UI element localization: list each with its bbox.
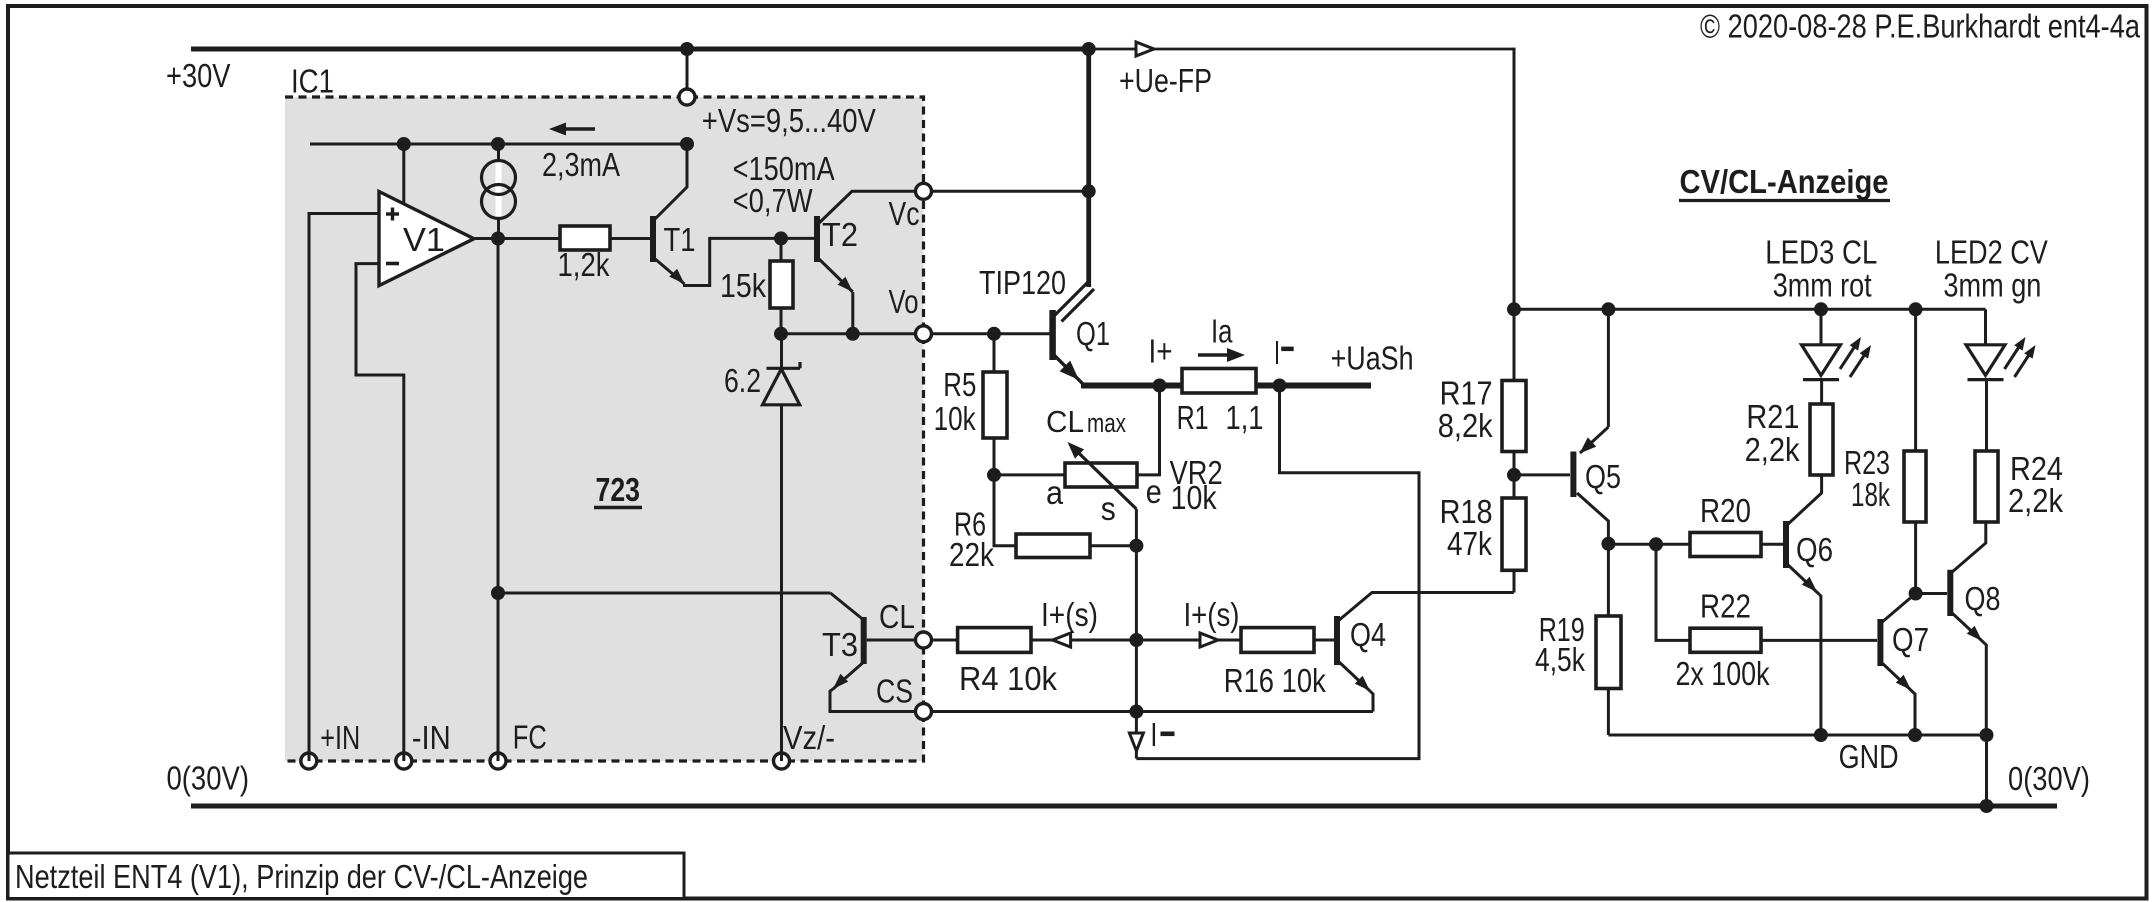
T1 emitter xyxy=(654,258,685,284)
svg-text:I+: I+ xyxy=(1149,334,1173,371)
junction op-amp out xyxy=(491,232,505,246)
label <0,7W xyxy=(733,183,813,220)
svg-text:CV/CL-Anzeige: CV/CL-Anzeige xyxy=(1680,164,1889,201)
resistor R17 xyxy=(1502,381,1526,452)
current source circle 1 xyxy=(482,161,516,195)
wire Vo line xyxy=(781,332,916,335)
T2 emitter xyxy=(818,258,853,292)
label R21 xyxy=(1746,399,1799,436)
junction GND/Q7e xyxy=(1908,728,1922,742)
Q6 collector xyxy=(1787,475,1822,525)
junction bus/LED3 xyxy=(1814,302,1828,316)
wire VR2 right up xyxy=(1137,386,1160,475)
transistor Q5 bar xyxy=(1570,452,1576,498)
label a xyxy=(1046,475,1063,512)
junction Q5c/R19/R20 xyxy=(1601,537,1615,551)
label R18 value 47k xyxy=(1447,526,1492,563)
wire GND to rail xyxy=(1985,735,1988,806)
label V1 xyxy=(403,222,445,259)
wire +IN input xyxy=(309,214,379,762)
wire T3 base to CL xyxy=(867,639,916,642)
label CL xyxy=(879,599,915,636)
wire +Ue-FP feed xyxy=(1089,48,1514,51)
label Q4 xyxy=(1350,617,1386,654)
wire R18 top xyxy=(1513,475,1516,498)
wire 15k top xyxy=(780,238,783,261)
svg-text:1,2k: 1,2k xyxy=(558,247,610,284)
wire Vo to Q1 base xyxy=(932,332,1050,335)
svg-text:723: 723 xyxy=(596,472,641,509)
svg-text:T2: T2 xyxy=(822,217,858,254)
svg-text:CL: CL xyxy=(879,599,915,636)
wire R18 bottom xyxy=(1513,570,1516,592)
label 723 xyxy=(594,472,642,509)
wire R22 to Q7 xyxy=(1761,639,1877,642)
arrow I- down xyxy=(1129,733,1143,751)
svg-text:s: s xyxy=(1101,491,1116,528)
zener 6.2 cathode bar xyxy=(767,362,801,368)
op-amp - sign xyxy=(386,262,399,266)
pin Vc xyxy=(916,183,932,199)
svg-text:I: I xyxy=(1274,335,1280,372)
junction FC/T3 xyxy=(491,586,505,600)
title block box xyxy=(8,853,684,899)
label LED3 CL xyxy=(1765,235,1877,272)
junction bus/Q5 xyxy=(1601,302,1615,316)
svg-text:10k: 10k xyxy=(934,401,976,438)
label T3 xyxy=(822,627,858,664)
junction R5/R6/VR2 xyxy=(987,468,1001,482)
svg-text:R1: R1 xyxy=(1177,400,1209,437)
arrow I+(s) left xyxy=(1053,633,1071,647)
svg-text:Vz/-: Vz/- xyxy=(783,720,835,757)
resistor R21 xyxy=(1810,404,1833,475)
pin Vz/- xyxy=(774,753,790,769)
0(30V) rail bottom xyxy=(191,804,2057,809)
junction R6/wiper xyxy=(1129,539,1143,553)
svg-text:R20: R20 xyxy=(1700,493,1751,530)
svg-text:3mm rot: 3mm rot xyxy=(1773,267,1873,304)
label R22 xyxy=(1700,589,1751,626)
T3 collector diag xyxy=(830,593,863,620)
output line UaSh xyxy=(1081,383,1371,389)
label IC1 xyxy=(291,64,334,101)
label R23 value 18k xyxy=(1851,477,1890,514)
label 0(30V) right xyxy=(2008,761,2090,798)
resistor R1 xyxy=(1182,369,1256,394)
label 1,2k xyxy=(558,247,610,284)
svg-text:-IN: -IN xyxy=(412,720,451,757)
svg-text:R16 10k: R16 10k xyxy=(1224,663,1326,700)
label R17 value 8,2k xyxy=(1438,408,1493,445)
svg-text:1,1: 1,1 xyxy=(1226,400,1264,437)
svg-text:IC1: IC1 xyxy=(291,64,334,101)
label R20 xyxy=(1700,493,1751,530)
resistor R19 xyxy=(1596,616,1621,689)
label VR2 value xyxy=(1171,480,1217,517)
svg-text:Q8: Q8 xyxy=(1965,581,2001,618)
junction R17/R18/Q5base xyxy=(1507,468,1521,482)
label R21 value 2,2k xyxy=(1745,432,1800,469)
svg-text:CL: CL xyxy=(1046,404,1084,439)
arrow +Ue-FP xyxy=(1136,42,1154,56)
Q8 collector xyxy=(1951,522,1986,573)
wire -IN input xyxy=(356,264,404,761)
label FC xyxy=(513,720,547,757)
pin -IN xyxy=(396,753,412,769)
label Q1 xyxy=(1076,316,1110,353)
IC1 gray region xyxy=(285,97,924,761)
svg-text:R21: R21 xyxy=(1746,399,1799,436)
svg-text:Q5: Q5 xyxy=(1585,459,1621,496)
junction T2e/Vo xyxy=(846,327,860,341)
wire V+ to op-amp xyxy=(402,144,405,205)
junction Vc line xyxy=(1082,184,1096,198)
junction CS/I- xyxy=(1129,705,1143,719)
label GND xyxy=(1839,739,1899,776)
+30V rail xyxy=(191,47,1089,52)
title text xyxy=(15,859,588,896)
svg-text:0(30V): 0(30V) xyxy=(2008,761,2090,798)
pin CS xyxy=(916,704,932,720)
label 6.2 xyxy=(724,363,761,400)
transistor Q8 bar xyxy=(1947,570,1953,616)
junction +30V/Vs xyxy=(680,42,694,56)
resistor R22 xyxy=(1690,628,1761,652)
wire Q8 emitter down xyxy=(1985,644,1987,736)
svg-text:FC: FC xyxy=(513,720,547,757)
resistor R18 xyxy=(1502,498,1526,570)
junction bus/R17 xyxy=(1507,302,1521,316)
wire internal V+ line xyxy=(310,143,687,146)
svg-text:3mm gn: 3mm gn xyxy=(1943,267,2041,304)
svg-text:© 2020-08-28 P.E.Burkhardt ent: © 2020-08-28 P.E.Burkhardt ent4-4a xyxy=(1700,9,2140,46)
junction R5 top xyxy=(987,327,1001,341)
wire I- return xyxy=(1136,386,1419,759)
label +Ue-FP xyxy=(1119,63,1212,100)
junction V+ c xyxy=(680,137,694,151)
wire R20 line xyxy=(1608,543,1690,546)
label R5 value xyxy=(934,401,976,438)
wire R22 drop xyxy=(1656,544,1690,640)
svg-text:e: e xyxy=(1146,474,1162,511)
transistor Q1 bar xyxy=(1049,310,1056,360)
IC1 dashed border xyxy=(285,97,924,761)
Q1 collector double xyxy=(1054,280,1094,322)
wire R17 top xyxy=(1513,309,1516,380)
label R1 xyxy=(1177,400,1209,437)
label I- bottom xyxy=(1150,717,1174,754)
LED3 light arrows xyxy=(1840,337,1871,377)
resistor R23 xyxy=(1904,451,1926,522)
label LED2 CV xyxy=(1935,235,2049,272)
label LED3 3mm rot xyxy=(1773,267,1873,304)
svg-text:2x 100k: 2x 100k xyxy=(1676,656,1770,693)
label LED2 3mm gn xyxy=(1943,267,2041,304)
junction GND/rail xyxy=(1980,799,1994,813)
label R6 value 22k xyxy=(949,537,994,574)
Q8 emitter xyxy=(1951,612,1985,644)
svg-text:+IN: +IN xyxy=(320,720,360,757)
wire R5 top xyxy=(993,334,996,372)
wire 15k bottom xyxy=(780,308,783,334)
wire I- drop xyxy=(1135,712,1138,759)
bus top xyxy=(1514,308,1986,311)
wire cs top xyxy=(497,144,500,161)
op-amp V1 xyxy=(379,192,474,286)
arrow Ia xyxy=(1198,348,1245,362)
label Q7 xyxy=(1892,622,1929,659)
label R1 value 1,1 xyxy=(1226,400,1264,437)
svg-text:22k: 22k xyxy=(949,537,994,574)
junction 15k/zener xyxy=(774,327,788,341)
label R18 xyxy=(1440,494,1493,531)
wire cs bottom xyxy=(497,218,500,239)
wire R23 bottom xyxy=(1914,522,1917,594)
T2 collector xyxy=(818,191,916,224)
label Vz/- xyxy=(783,720,835,757)
wire R4 to junction xyxy=(1031,639,1136,642)
wire CS line xyxy=(932,710,1374,713)
resistor R6 xyxy=(1016,534,1090,558)
junction GND/Q8e xyxy=(1980,728,1994,742)
label CV/CL-Anzeige xyxy=(1679,164,1890,201)
svg-text:Netzteil ENT4 (V1), Prinzip de: Netzteil ENT4 (V1), Prinzip der CV-/CL-A… xyxy=(15,859,588,896)
svg-text:max: max xyxy=(1087,408,1126,438)
svg-text:LED2 CV: LED2 CV xyxy=(1935,235,2049,272)
Q4 collector xyxy=(1338,593,1514,622)
wire Q8 base xyxy=(1916,592,1947,595)
junction I- xyxy=(1273,379,1287,393)
wire R23 top xyxy=(1914,309,1917,451)
label R23 xyxy=(1844,445,1890,482)
copyright text xyxy=(1700,9,2140,46)
transistor T2 bar xyxy=(814,216,820,262)
svg-text:GND: GND xyxy=(1839,739,1899,776)
label R16 10k xyxy=(1224,663,1326,700)
wire T1 emitter to node xyxy=(685,238,779,285)
Q7 emitter xyxy=(1881,662,1913,693)
svg-text:I+(s): I+(s) xyxy=(1184,597,1240,634)
junction Q7c/R23/Q8b xyxy=(1909,587,1923,601)
potentiometer VR2 xyxy=(1065,463,1137,487)
svg-text:Vo: Vo xyxy=(889,284,919,321)
junction I+ xyxy=(1153,379,1167,393)
wire T2 base xyxy=(781,237,814,240)
resistor R5 xyxy=(983,372,1007,438)
label s xyxy=(1101,491,1116,528)
svg-text:Q6: Q6 xyxy=(1796,532,1833,569)
svg-text:8,2k: 8,2k xyxy=(1438,408,1493,445)
svg-text:18k: 18k xyxy=(1851,477,1890,514)
wire T3 emitter to CS xyxy=(830,689,916,712)
svg-text:Ia: Ia xyxy=(1211,314,1233,351)
label +IN xyxy=(320,720,360,757)
label 2,3mA xyxy=(542,147,621,184)
label 2x 100k xyxy=(1676,656,1770,693)
op-amp + sign xyxy=(386,208,399,221)
svg-text:LED3 CL: LED3 CL xyxy=(1765,235,1877,272)
wire LED3 anode xyxy=(1820,309,1823,345)
label 0(30V) left xyxy=(167,761,250,798)
junction bus/R23 xyxy=(1909,302,1923,316)
wire Vc to Q1 feed xyxy=(932,190,1089,193)
wire Q1 collector feed xyxy=(1086,49,1091,287)
svg-text:T3: T3 xyxy=(822,627,858,664)
label I+ xyxy=(1149,334,1173,371)
svg-text:4,5k: 4,5k xyxy=(1535,642,1585,679)
svg-text:Q1: Q1 xyxy=(1076,316,1110,353)
label TIP120 xyxy=(979,265,1066,302)
junction T1/T2/15k xyxy=(774,231,788,245)
transistor T1 bar xyxy=(650,216,656,262)
zener 6.2 wire top xyxy=(780,334,783,369)
resistor R4 xyxy=(958,628,1031,653)
junction sense/R4 xyxy=(1129,633,1143,647)
label R19 value 4,5k xyxy=(1535,642,1585,679)
wire LED2 anode xyxy=(1984,309,1987,345)
GND bus xyxy=(1608,734,1986,737)
svg-text:R5: R5 xyxy=(943,367,976,404)
svg-text:+Vs=9,5...40V: +Vs=9,5...40V xyxy=(702,103,877,140)
junction R20/R22 xyxy=(1649,537,1663,551)
svg-text:2,3mA: 2,3mA xyxy=(542,147,621,184)
svg-text:6.2: 6.2 xyxy=(724,363,761,400)
wire opamp out to R xyxy=(474,237,560,240)
svg-text:+Ue-FP: +Ue-FP xyxy=(1119,63,1212,100)
wire Q7 emitter down xyxy=(1913,693,1915,736)
wire R6 left xyxy=(994,475,1016,546)
label R17 xyxy=(1440,375,1493,412)
transistor Q4 bar xyxy=(1334,616,1340,665)
Q5 emitter xyxy=(1580,309,1609,453)
wire R21 top xyxy=(1820,380,1823,404)
T1 collector xyxy=(654,144,687,220)
wire right feed down xyxy=(1513,48,1516,310)
svg-text:CS: CS xyxy=(876,674,913,711)
label R4 10k xyxy=(959,661,1057,698)
pin CL xyxy=(916,632,932,648)
resistor 15k xyxy=(770,261,793,308)
Q7 collector xyxy=(1881,594,1916,624)
label <150mA xyxy=(733,151,836,188)
wire wiper down xyxy=(1135,509,1138,546)
label I- xyxy=(1274,335,1294,372)
wire R24 top xyxy=(1985,380,1988,451)
wire R19 top xyxy=(1607,544,1610,616)
svg-text:T1: T1 xyxy=(664,222,696,259)
svg-text:R4 10k: R4 10k xyxy=(959,661,1057,698)
wire sense vertical xyxy=(1135,546,1138,712)
svg-text:+30V: +30V xyxy=(166,58,231,95)
Q6 emitter xyxy=(1787,564,1819,595)
svg-text:I: I xyxy=(1150,717,1157,754)
label 15k xyxy=(720,268,766,305)
label Vc xyxy=(889,196,920,233)
junction rail/Q1 xyxy=(1082,42,1096,56)
wire R17 bottom xyxy=(1513,452,1516,475)
svg-text:2,2k: 2,2k xyxy=(2008,483,2063,520)
label R19 xyxy=(1539,612,1585,649)
label Q5 xyxy=(1585,459,1621,496)
label T2 xyxy=(822,217,858,254)
label VR2 xyxy=(1170,455,1223,492)
label CS xyxy=(876,674,913,711)
label e xyxy=(1146,474,1162,511)
transistor Q6 bar xyxy=(1783,521,1789,568)
resistor R24 xyxy=(1975,451,1998,522)
label -IN xyxy=(412,720,451,757)
arrow 2,3mA xyxy=(549,123,595,136)
svg-text:<0,7W: <0,7W xyxy=(733,183,813,220)
VR2 wiper arrow xyxy=(1068,442,1137,509)
svg-text:10k: 10k xyxy=(1171,480,1217,517)
wire R16 to Q4 xyxy=(1314,639,1334,642)
svg-text:+UaSh: +UaSh xyxy=(1331,341,1414,378)
LED2 light arrows xyxy=(2005,337,2036,377)
wire T2 emitter down xyxy=(851,292,854,334)
transistor T3 bar xyxy=(861,617,867,664)
transistor Q7 bar xyxy=(1877,619,1883,666)
current source circle 2 xyxy=(482,185,516,219)
junction V+ b xyxy=(491,137,505,151)
label R24 value 2,2k xyxy=(2008,483,2063,520)
pin +Vs xyxy=(679,89,695,105)
T3 emitter xyxy=(833,662,864,689)
label R5 xyxy=(943,367,976,404)
junction GND/Q6e xyxy=(1814,728,1828,742)
wire FC to T3 xyxy=(498,592,830,595)
wire VR2 left xyxy=(994,473,1065,476)
svg-text:R22: R22 xyxy=(1700,589,1751,626)
resistor R20 xyxy=(1690,533,1761,557)
svg-text:R17: R17 xyxy=(1440,375,1493,412)
label +30V xyxy=(166,58,231,95)
wire R5 bottom xyxy=(993,438,996,475)
diode LED3 xyxy=(1802,345,1841,380)
svg-text:47k: 47k xyxy=(1447,526,1492,563)
Q1 emitter xyxy=(1054,355,1083,384)
svg-text:2,2k: 2,2k xyxy=(1745,432,1800,469)
resistor R16 xyxy=(1241,628,1314,653)
Q5 collector xyxy=(1577,493,1608,544)
wire zener to Vz pin xyxy=(780,405,783,761)
wire R20 to Q6 xyxy=(1761,543,1783,546)
label I+(s) left xyxy=(1041,597,1098,634)
current source white stripe xyxy=(496,162,502,217)
label CLmax xyxy=(1046,404,1126,439)
pin FC xyxy=(490,753,506,769)
svg-text:Q7: Q7 xyxy=(1892,622,1929,659)
pin Vo xyxy=(916,326,932,342)
wire CL to R4 xyxy=(932,639,958,642)
label R6 xyxy=(954,507,986,544)
wire R19 bottom xyxy=(1607,689,1610,736)
Q4 emitter xyxy=(1338,661,1370,691)
wire Q5 base xyxy=(1514,473,1570,476)
wire R6 right xyxy=(1090,544,1136,547)
junction V+ a xyxy=(397,137,411,151)
label +Vs xyxy=(702,103,877,140)
label I+(s) right xyxy=(1184,597,1240,634)
wire Q4 emitter down xyxy=(1370,691,1373,712)
arrow I+(s) right xyxy=(1200,633,1218,647)
resistor 1,2k xyxy=(560,226,610,250)
wire junction to R16 xyxy=(1136,639,1241,642)
wire R to T1 base xyxy=(610,237,650,240)
svg-text:TIP120: TIP120 xyxy=(979,265,1066,302)
svg-text:Vc: Vc xyxy=(889,196,920,233)
